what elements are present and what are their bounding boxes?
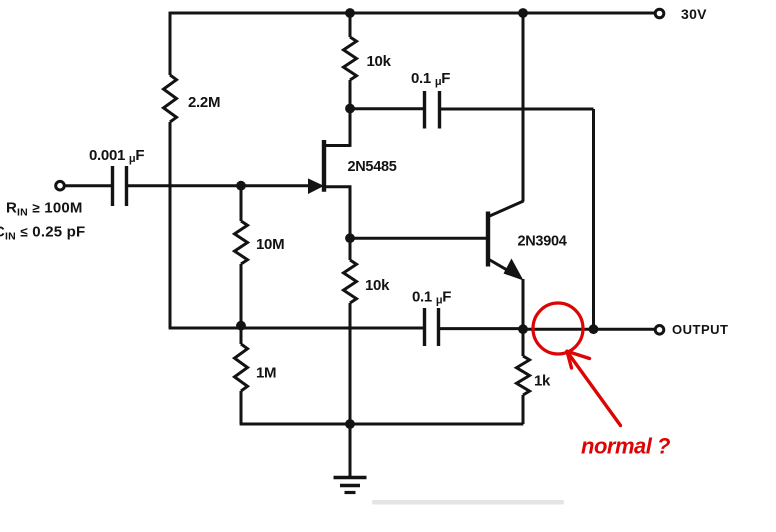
transistor Q1 2N5485 JFET gate arrow: [308, 178, 324, 194]
wire output line left section: [169, 327, 425, 330]
resistor R3 10M: [235, 221, 248, 264]
node ground junction: [345, 419, 355, 429]
wire Q2 emitter: [489, 260, 514, 275]
wire 10M lower lead: [240, 264, 243, 326]
svg-text:10k: 10k: [367, 53, 392, 70]
svg-text:1M: 1M: [256, 365, 276, 382]
svg-text:0.1 μF: 0.1 μF: [411, 70, 450, 88]
terminal OUTPUT: [655, 326, 664, 335]
wire bottom rail: [240, 423, 524, 426]
svg-text:2N5485: 2N5485: [348, 159, 397, 175]
node drain junction: [345, 104, 355, 114]
annotation red arrow: [567, 352, 621, 426]
ground symbol: [349, 424, 352, 477]
resistor R6 1k: [522, 329, 525, 356]
svg-text:0.1 μF: 0.1 μF: [412, 289, 451, 307]
node source junction: [345, 233, 355, 243]
wire 10k lower to bottom rail: [349, 303, 352, 424]
svg-text:2N3904: 2N3904: [518, 234, 567, 250]
wire 1M lower lead: [240, 391, 243, 424]
svg-text:10k: 10k: [365, 277, 390, 294]
capacitor C3 0.1uF lower: [423, 308, 426, 346]
wire collector diagonal: [489, 201, 524, 217]
terminal INPUT: [56, 181, 65, 190]
wire 10M upper lead: [240, 186, 243, 221]
wire 10k lower lead: [349, 80, 352, 109]
transistor Q2 2N3904 base bar: [486, 212, 490, 267]
wire C2 to output node: [440, 109, 594, 329]
wire 10k upper lead: [349, 13, 352, 37]
wire collector vertical: [522, 13, 525, 202]
wire output node to terminal: [523, 328, 654, 331]
resistor R4 10k lower: [349, 238, 352, 260]
wire left vertical from rail to 2.2M: [169, 12, 172, 75]
transistor Q1 2N5485 JFET channel bar: [322, 140, 326, 192]
node C2-output junction: [589, 324, 599, 334]
resistor R1 2.2M: [164, 75, 177, 122]
svg-text:1k: 1k: [534, 373, 551, 390]
node 10M-1M junction: [236, 321, 246, 331]
transistor Q2 emitter arrow: [504, 259, 524, 281]
annotation red circle: [533, 303, 583, 354]
wire input terminal to C1: [64, 184, 113, 187]
wire 1k lower lead: [522, 395, 525, 424]
wire output node to C3: [439, 327, 523, 330]
capacitor C1 0.001uF input: [111, 166, 114, 206]
wire emitter to output node: [522, 279, 525, 329]
wire Q1 source lead: [322, 185, 350, 239]
svg-text:OUTPUT: OUTPUT: [672, 322, 728, 337]
wire base from source node: [350, 237, 487, 240]
node gate-10M junction: [236, 181, 246, 191]
wire Q1 drain lead: [322, 107, 350, 147]
node top rail - 10k junction: [345, 8, 355, 18]
svg-text:2.2M: 2.2M: [188, 94, 220, 111]
svg-text:normal ?: normal ?: [581, 434, 670, 459]
wire drain node to C2: [350, 107, 425, 110]
wire C1 to gate: [127, 184, 310, 187]
svg-text:0.001 μF: 0.001 μF: [89, 147, 144, 165]
scan smudge bottom: [372, 500, 564, 505]
resistor R2 10k: [344, 37, 357, 80]
svg-text:30V: 30V: [681, 6, 707, 22]
node top rail - collector junction: [518, 8, 528, 18]
capacitor C2 0.1uF upper: [423, 91, 426, 129]
node emitter-output junction: [518, 324, 528, 334]
resistor R5 1M: [240, 326, 243, 344]
wire left vertical 2.2M to output line: [169, 122, 172, 328]
svg-text:10M: 10M: [256, 236, 284, 253]
terminal 30V: [655, 9, 664, 18]
wire top supply rail: [170, 12, 654, 15]
